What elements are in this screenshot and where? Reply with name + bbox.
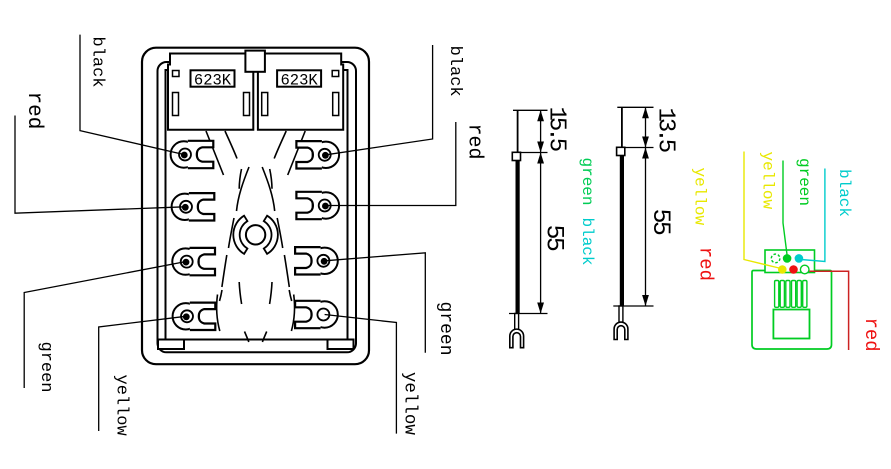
- extension line middle: [521, 152, 548, 154]
- svg-text:black: black: [445, 46, 464, 97]
- switch body outer outline: [142, 48, 369, 365]
- svg-text:black: black: [578, 218, 596, 266]
- bottom tab left: [158, 340, 184, 350]
- pad yellow: [778, 265, 787, 274]
- rocker module left: [168, 54, 253, 130]
- svg-text:red: red: [860, 318, 882, 352]
- terminal R4: [295, 301, 338, 328]
- center tab between modules: [245, 51, 265, 72]
- insulation crimp: [512, 152, 520, 160]
- terminal barrel: [515, 314, 519, 331]
- svg-text:55: 55: [646, 209, 675, 235]
- dimension line: [645, 107, 647, 306]
- yellow wire: [744, 152, 779, 269]
- terminal L2: [172, 193, 215, 220]
- svg-text:green: green: [435, 302, 455, 356]
- label box 623K left: [191, 70, 235, 86]
- wire leader red right: [326, 122, 456, 206]
- wire leader green left: [24, 262, 185, 388]
- terminal barrel: [619, 306, 623, 324]
- pin contacts: [775, 281, 807, 308]
- wire body: [515, 161, 519, 314]
- svg-text:15.5: 15.5: [543, 107, 570, 151]
- extension line bottom: [509, 313, 548, 315]
- terminal L1: [171, 141, 214, 168]
- insulation crimp: [617, 147, 625, 155]
- pad open circle 2: [800, 265, 809, 274]
- extension line top: [617, 106, 653, 108]
- switch body inner frame: [166, 70, 348, 340]
- terminal R2: [296, 192, 339, 219]
- terminal R1: [296, 141, 339, 168]
- RJ connector latch: [765, 250, 815, 273]
- bare conductor: [621, 107, 623, 147]
- svg-text:623K: 623K: [280, 71, 318, 89]
- RJ inner opening: [773, 310, 809, 339]
- terminal R3: [295, 247, 338, 274]
- terminal L4: [173, 303, 216, 330]
- svg-text:55: 55: [540, 225, 569, 251]
- dimension arrows: [642, 107, 649, 306]
- extension line top: [513, 109, 548, 111]
- pad open circle 1: [771, 254, 780, 263]
- svg-text:red: red: [463, 124, 486, 160]
- RJ connector body: [752, 271, 832, 350]
- svg-text:black: black: [835, 169, 853, 217]
- svg-text:red: red: [695, 247, 717, 281]
- svg-text:yellow: yellow: [112, 375, 131, 437]
- wire leader green right: [325, 253, 426, 353]
- svg-text:green: green: [795, 158, 813, 206]
- svg-text:green: green: [578, 158, 596, 206]
- red wire: [809, 271, 848, 350]
- dimension arrows: [537, 110, 544, 313]
- svg-text:yellow: yellow: [759, 152, 777, 210]
- svg-text:yellow: yellow: [400, 372, 420, 436]
- svg-text:623K: 623K: [194, 71, 232, 89]
- center boss arcs: [233, 216, 247, 254]
- molded wire channel curves: [206, 131, 305, 342]
- rocker module right: [258, 54, 343, 130]
- pad green: [783, 254, 792, 263]
- svg-text:black: black: [88, 37, 107, 88]
- wire leader yellow right: [325, 315, 397, 434]
- wire leader black left: [80, 35, 184, 155]
- label box 623K right: [277, 70, 321, 86]
- svg-text:red: red: [22, 92, 45, 130]
- black wire (cyan): [801, 169, 825, 262]
- switch body middle outline: [158, 62, 357, 352]
- terminal L3: [172, 248, 215, 275]
- fork terminal: [614, 322, 628, 339]
- svg-text:13.5: 13.5: [652, 108, 679, 152]
- svg-text:yellow: yellow: [691, 168, 709, 226]
- wire body: [620, 156, 624, 307]
- wire leader yellow left: [99, 316, 186, 431]
- pad red: [789, 265, 798, 274]
- center boss circle: [246, 225, 265, 244]
- svg-text:green: green: [36, 342, 55, 393]
- bare conductor: [517, 110, 519, 152]
- wire leader red left: [15, 116, 185, 214]
- dimension line: [540, 110, 542, 313]
- extension line bottom: [613, 305, 653, 307]
- fork terminal: [510, 329, 524, 348]
- extension line middle: [625, 147, 653, 149]
- wire leader black right: [326, 45, 433, 155]
- green wire: [783, 161, 787, 255]
- pad black (cyan): [795, 254, 804, 263]
- bottom tab right: [328, 340, 354, 350]
